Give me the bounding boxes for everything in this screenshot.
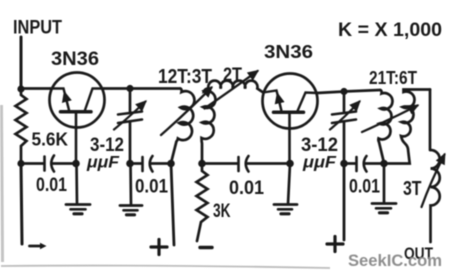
node Q1 base junction xyxy=(72,160,80,168)
ground G3 xyxy=(274,164,297,214)
svg-text:2T: 2T xyxy=(223,64,242,86)
resistor R1 5.6K xyxy=(16,89,27,163)
transformer T1 12T:3T primary coil (12T) xyxy=(171,89,194,164)
svg-text:21T:6T: 21T:6T xyxy=(369,68,417,88)
svg-text:μμF: μμF xyxy=(302,153,337,172)
terminal minus 2 xyxy=(200,246,212,249)
node T2 primary bottom / ground xyxy=(380,160,388,168)
node T1 primary bottom xyxy=(167,160,175,168)
node C5 bottom / C6 left xyxy=(340,160,348,168)
node Q2 base junction xyxy=(286,160,294,168)
page edge smudge left xyxy=(2,105,3,262)
svg-text:3K: 3K xyxy=(213,200,231,222)
transistor Q2 3N36 xyxy=(263,74,318,130)
wire output vertical xyxy=(429,90,432,151)
svg-text:SeekIC.com: SeekIC.com xyxy=(348,252,442,270)
capacitor C3 0.01 xyxy=(130,156,171,172)
wire input to Q1 emitter xyxy=(21,87,50,90)
node C2 bottom / C3 left xyxy=(126,160,134,168)
svg-text:0.01: 0.01 xyxy=(36,175,67,196)
wire Q2 collector to transformer T2 xyxy=(317,90,380,93)
svg-text:3N36: 3N36 xyxy=(51,49,99,70)
tuning arrow L1 xyxy=(205,71,258,109)
resistor R2 3K xyxy=(197,164,208,242)
tuning arrow L2 xyxy=(422,155,445,208)
svg-text:0.01: 0.01 xyxy=(349,177,380,198)
transformer T1 secondary coil (3T) xyxy=(202,89,216,164)
wire input vertical top xyxy=(20,37,23,89)
transistor Q1 3N36 xyxy=(50,73,105,129)
variable inductor L1 2T xyxy=(208,81,262,92)
capacitor C1 0.01 xyxy=(21,156,76,172)
node R1 bottom / C1 left xyxy=(17,160,24,167)
wire down to plus terminal 2 xyxy=(343,164,346,241)
wire down to minus terminal 1 xyxy=(21,164,22,245)
wire down to plus terminal 1 xyxy=(171,164,174,246)
svg-text:0.01: 0.01 xyxy=(135,177,168,198)
svg-text:0.01: 0.01 xyxy=(229,178,264,199)
ground G1 xyxy=(66,164,90,214)
svg-text:3T: 3T xyxy=(403,177,422,200)
capacitor C4 0.01 xyxy=(239,156,291,172)
terminal plus 1 xyxy=(151,240,167,255)
svg-text:μμF: μμF xyxy=(86,153,120,172)
svg-text:3N36: 3N36 xyxy=(264,42,313,62)
wire T1 secondary to C4 xyxy=(202,162,238,165)
variable capacitor C5 3-12uuF xyxy=(330,92,360,164)
capacitor C6 0.01 xyxy=(344,156,384,172)
svg-text:K = X 1,000: K = X 1,000 xyxy=(338,19,442,41)
terminal plus 2 xyxy=(327,237,343,252)
ground G4 xyxy=(372,164,396,213)
wire Q1 base lead xyxy=(75,127,78,164)
ground G2 xyxy=(120,164,142,215)
tuning arrow T2 xyxy=(362,106,418,133)
node T1 secondary bottom / R2 top xyxy=(198,160,206,168)
tuning arrow T1 xyxy=(161,88,212,136)
wire Q2 base lead xyxy=(288,128,291,164)
terminal minus 1 (arrow mark) xyxy=(30,243,47,250)
variable capacitor C2 3-12uuF xyxy=(114,89,146,164)
wire Q1 collector to transformer xyxy=(104,87,180,90)
variable inductor L2 3T xyxy=(431,150,440,242)
svg-text:12T:3T: 12T:3T xyxy=(158,66,212,88)
page edge smudge bottom xyxy=(1,266,330,268)
svg-text:INPUT: INPUT xyxy=(13,18,62,39)
node input-emitter junction xyxy=(17,85,24,92)
node collector / C2 top xyxy=(126,85,133,92)
transformer T2 21T:6T primary coil (21T) xyxy=(378,90,392,163)
node collector2 / C5 top xyxy=(340,88,347,95)
transformer T2 secondary coil (6T) xyxy=(386,90,430,164)
svg-text:5.6K: 5.6K xyxy=(32,129,69,150)
